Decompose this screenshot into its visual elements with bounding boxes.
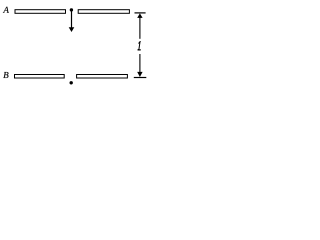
dimension line upper segment bbox=[139, 15, 141, 39]
rod A right segment bbox=[78, 10, 129, 14]
label A bbox=[3, 7, 9, 13]
dimension bottom tick bbox=[134, 77, 147, 79]
dimension top tick bbox=[135, 12, 146, 14]
dimension upper arrowhead bbox=[137, 13, 142, 18]
background bbox=[0, 0, 157, 97]
rod B left segment bbox=[15, 75, 65, 79]
node dot on rail A bbox=[70, 8, 73, 11]
dimension lower arrowhead bbox=[137, 72, 142, 77]
dimension line lower segment bbox=[139, 54, 141, 76]
rod A left segment bbox=[15, 10, 66, 14]
rod B right segment bbox=[77, 75, 128, 79]
label l (separation distance) bbox=[138, 42, 140, 50]
label B bbox=[3, 72, 8, 78]
node dot below gap of rail B bbox=[70, 81, 73, 84]
arrow (downward from dot on A) bbox=[69, 11, 75, 33]
